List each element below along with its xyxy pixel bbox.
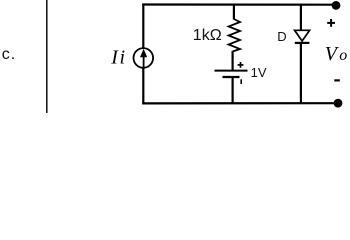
wire diode bottom stub [300,43,302,104]
wire diode top stub [300,4,302,31]
wire top [142,3,336,5]
wire middle mid stub [232,51,234,71]
node + terminal dot [332,1,341,10]
resistor 1kΩ [229,19,240,52]
label + output [327,19,335,27]
divider line [46,0,48,113]
current source Ii [134,48,154,68]
label - output [334,79,340,81]
wire middle bottom stub [232,77,234,104]
battery minus tick [240,79,242,84]
battery plus sign [238,62,244,68]
battery plate long [215,70,248,72]
svg-text:Ii: Ii [110,46,125,68]
wire left branch upper [142,4,144,48]
svg-text:c.: c. [2,46,16,63]
svg-text:1V: 1V [251,65,267,80]
wire left branch lower [142,68,144,104]
svg-text:Vo: Vo [325,43,347,65]
wire bottom [142,102,338,104]
svg-text:D: D [277,29,286,44]
svg-text:1kΩ: 1kΩ [193,27,222,44]
wire middle top stub [233,4,235,20]
battery plate short [223,76,240,78]
diode D [295,30,310,43]
node - terminal dot [334,99,343,108]
